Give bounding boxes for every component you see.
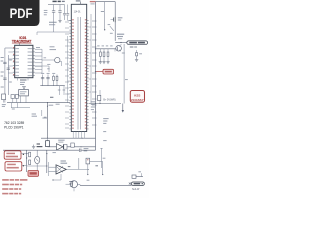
svg-text:213ASSY: 213ASSY bbox=[131, 98, 144, 102]
svg-text:762 103 3289: 762 103 3289 bbox=[4, 121, 24, 125]
svg-text:PLCD 190/P1: PLCD 190/P1 bbox=[4, 126, 24, 130]
svg-text:Sub-W: Sub-W bbox=[132, 188, 140, 191]
svg-text:KSS: KSS bbox=[134, 93, 140, 97]
svg-text:B+ 5V(WR): B+ 5V(WR) bbox=[103, 99, 115, 102]
svg-text:114-01: 114-01 bbox=[74, 12, 82, 14]
svg-text:PDF: PDF bbox=[10, 5, 33, 21]
svg-text:TDA1523AT: TDA1523AT bbox=[12, 39, 32, 43]
